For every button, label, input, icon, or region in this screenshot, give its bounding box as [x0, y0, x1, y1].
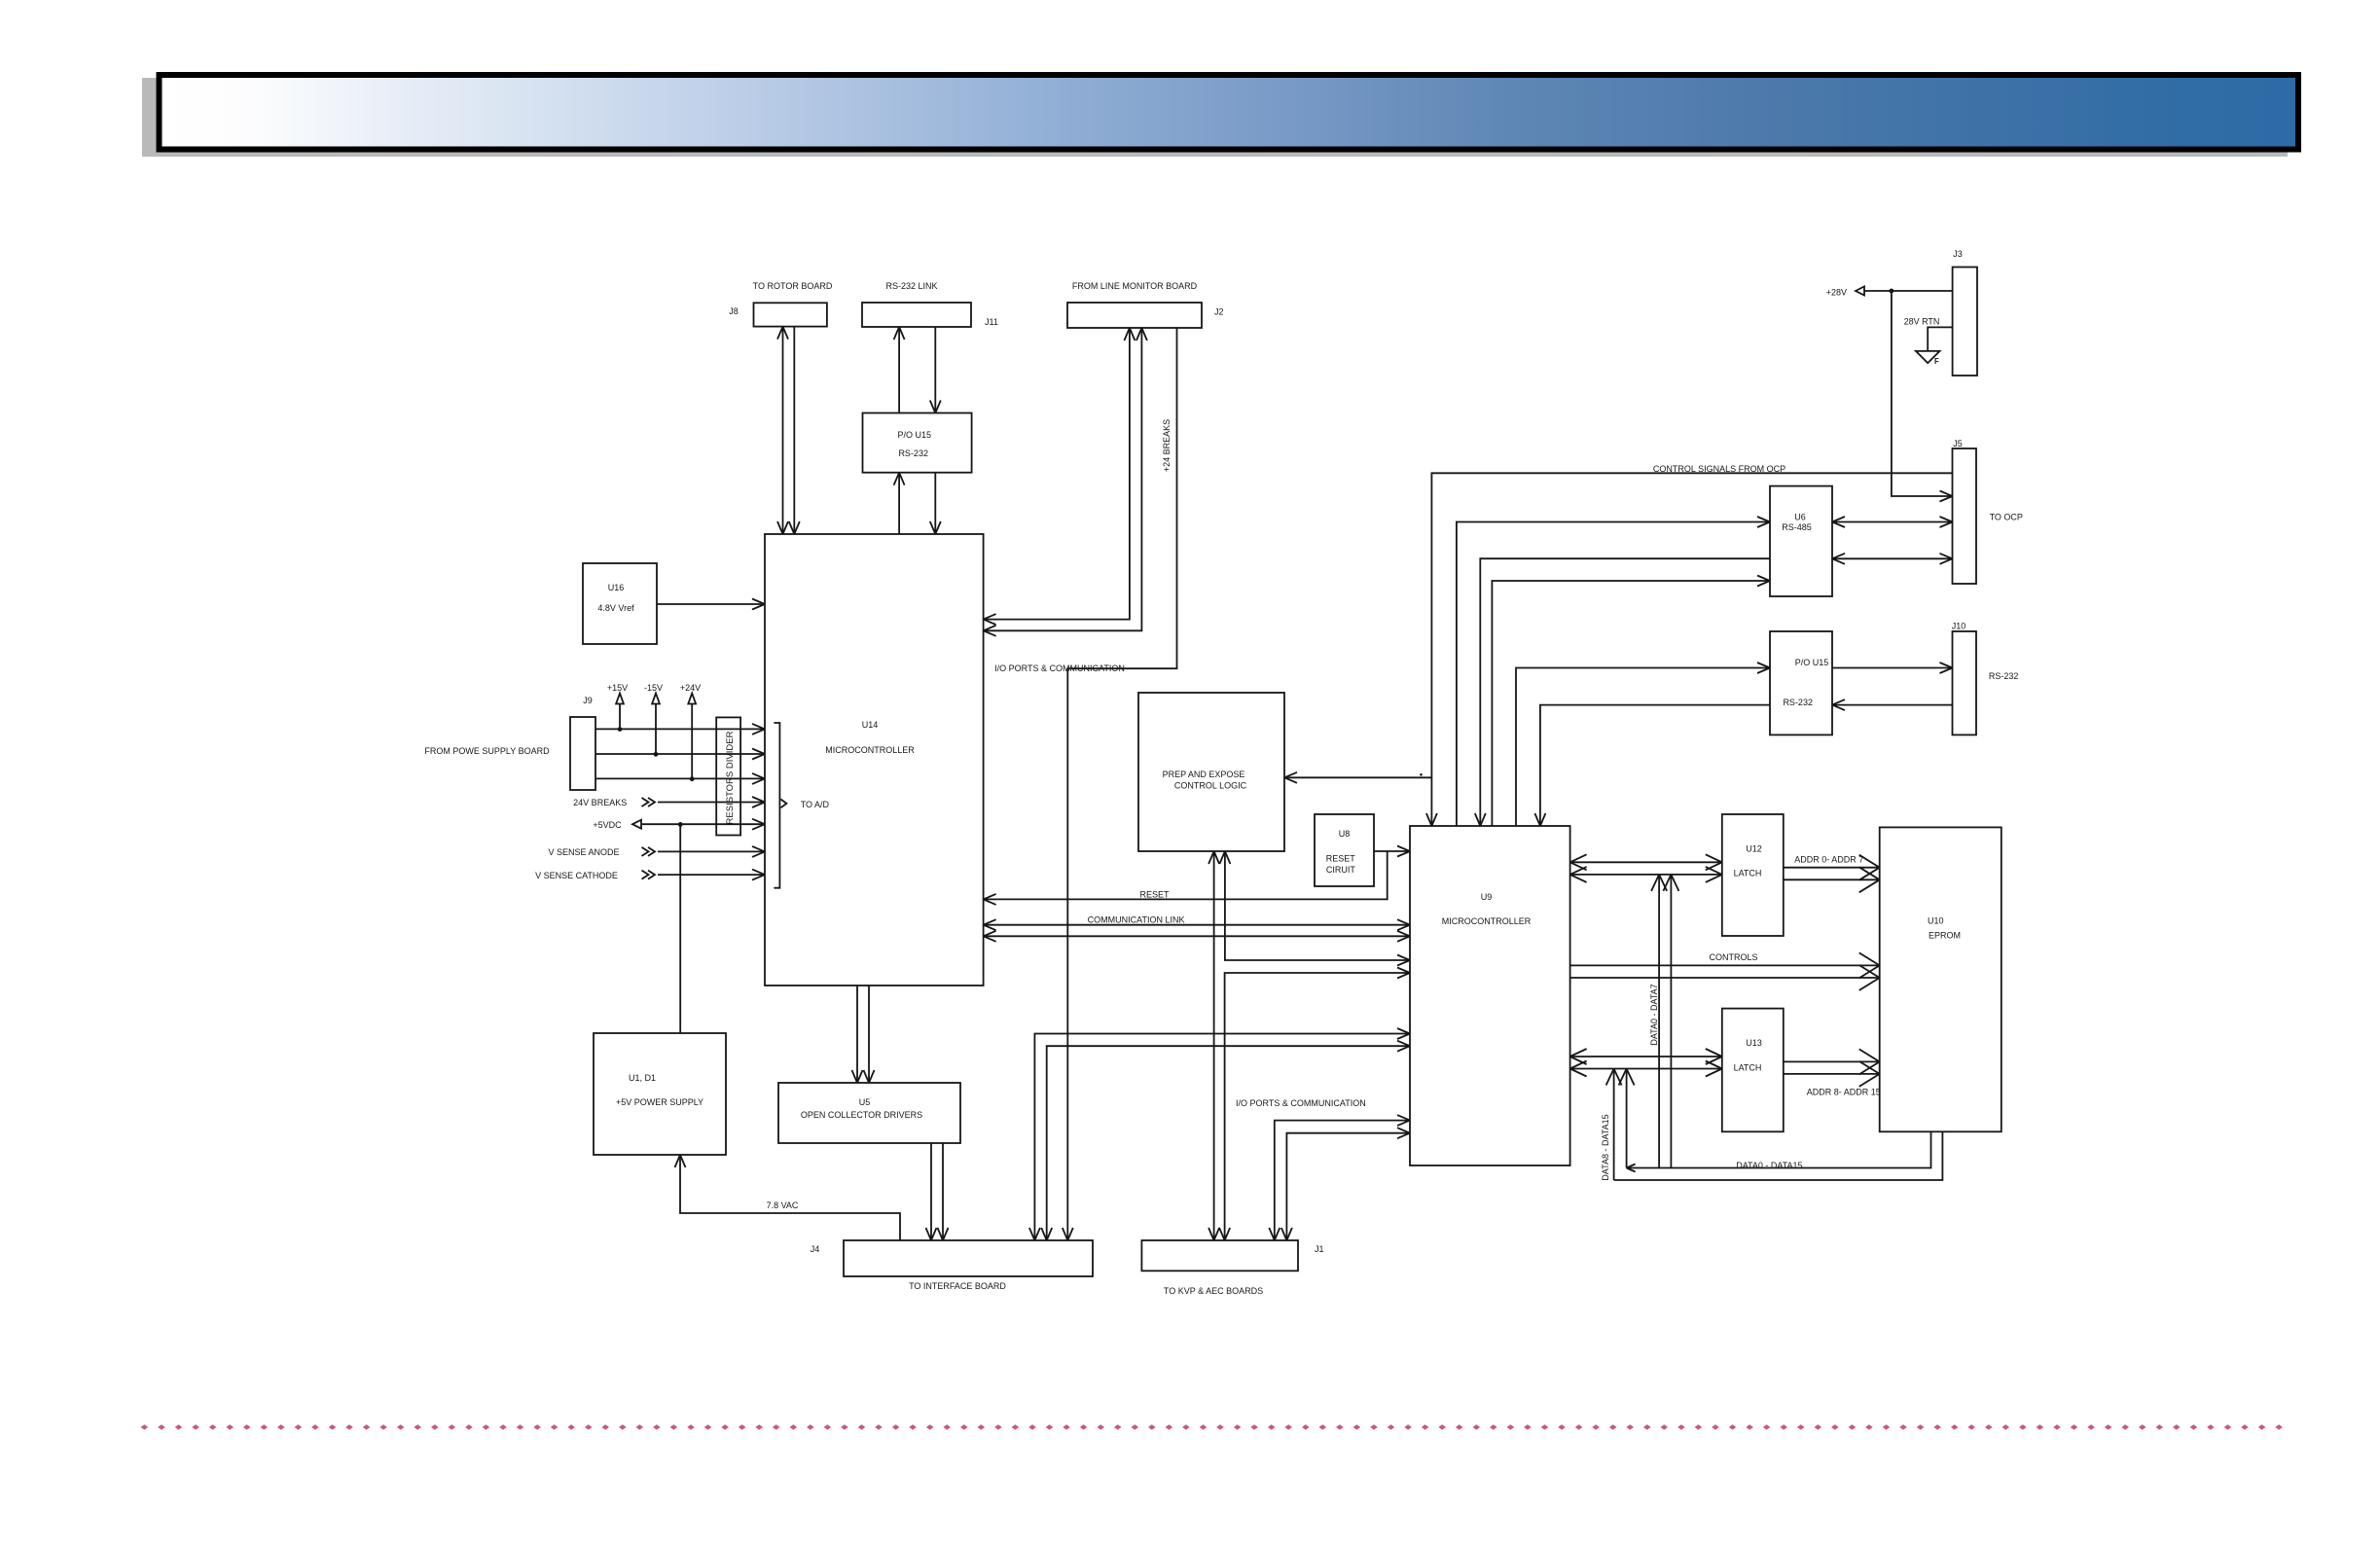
svg-text:LATCH: LATCH: [1734, 1062, 1762, 1072]
wire U5 to J4 right line: [942, 1143, 944, 1240]
ic U5 open collector drivers: [778, 1083, 960, 1143]
node +5VDC junction: [678, 822, 683, 827]
wire U9 to U6 line 1: [1457, 522, 1770, 827]
svg-text:CONTROL LOGIC: CONTROL LOGIC: [1174, 781, 1247, 791]
svg-text:-15V: -15V: [644, 683, 663, 693]
svg-text:+28V: +28V: [1826, 288, 1847, 298]
wire J10 to U15r: [1832, 704, 1953, 706]
wire J9 -15V rail: [595, 753, 765, 755]
wire U12-U10 ADDR bus line 2: [1784, 878, 1880, 880]
svg-text:RESET: RESET: [1326, 854, 1356, 864]
wire U9-U13 bus line 1: [1570, 1056, 1722, 1057]
svg-text:CONTROL SIGNALS FROM OCP: CONTROL SIGNALS FROM OCP: [1653, 464, 1785, 474]
wire DATA0-DATA15 upper: [1627, 1131, 1931, 1167]
node -15V: [655, 704, 657, 755]
header banner shadow: [142, 78, 2288, 157]
wire U16 to U14: [657, 603, 765, 605]
wire DATA0-DATA7 vertical right: [1670, 875, 1672, 1168]
ic U13 latch: [1722, 1009, 1784, 1132]
wire U8 to U9: [1374, 850, 1410, 852]
connector J9: [570, 717, 595, 790]
wire U9-U13 bus line 2: [1570, 1068, 1722, 1070]
svg-text:TO ROTOR BOARD: TO ROTOR BOARD: [753, 281, 833, 291]
wire J2 to U14 i/o line A: [984, 328, 1130, 620]
ic U9 microcontroller: [1410, 826, 1570, 1165]
connector J2: [1067, 303, 1202, 328]
svg-text:U14: U14: [862, 720, 879, 730]
wire J9 +24V rail: [595, 777, 765, 779]
wire J8 to U14 bus right line: [793, 327, 795, 534]
svg-text:U10: U10: [1928, 915, 1944, 925]
wire COMMUNICATION LINK line 1: [984, 924, 1410, 926]
wire U15 to U14 left line: [898, 473, 900, 534]
svg-text:TO OCP: TO OCP: [1990, 513, 2023, 522]
wire +5VDC input: [642, 823, 765, 825]
svg-text:RS-232: RS-232: [1783, 698, 1813, 707]
svg-text:+24 BREAKS: +24 BREAKS: [1162, 419, 1172, 472]
svg-text:RS-232 LINK: RS-232 LINK: [885, 281, 937, 291]
svg-text:FROM LINE MONITOR BOARD: FROM LINE MONITOR BOARD: [1072, 281, 1198, 291]
wire U9 to U6 line 2: [1492, 581, 1770, 826]
svg-text:J11: J11: [985, 317, 998, 327]
node +15V: [619, 704, 621, 730]
wire +5VDC down to U1: [679, 824, 681, 1033]
svg-text:J2: J2: [1214, 307, 1224, 317]
wire J8 to U14 bus left line: [782, 327, 784, 534]
svg-text:CIRUIT: CIRUIT: [1326, 865, 1355, 875]
wire COMMUNICATION LINK line 2: [984, 935, 1410, 937]
svg-text:J3: J3: [1953, 249, 1963, 259]
svg-text:J1: J1: [1315, 1244, 1324, 1254]
wire U5 to J4 left line: [930, 1143, 932, 1240]
wire J1 to U9 i/o upper: [1275, 1121, 1410, 1240]
svg-text:4.8V Vref: 4.8V Vref: [597, 603, 634, 613]
svg-text:PREP AND EXPOSE: PREP AND EXPOSE: [1163, 770, 1245, 779]
svg-text:ADDR 0- ADDR 7: ADDR 0- ADDR 7: [1794, 854, 1863, 864]
svg-text:DATA0 - DATA7: DATA0 - DATA7: [1649, 984, 1659, 1045]
wire U6 to J5 line 2: [1832, 557, 1953, 559]
svg-text:U9: U9: [1481, 892, 1493, 902]
ic U6 RS-485: [1770, 486, 1832, 596]
wire 28V RTN: [1928, 327, 1952, 351]
ic U15 P/O RS-232 (right): [1770, 631, 1832, 735]
svg-text:DATA8 - DATA15: DATA8 - DATA15: [1601, 1114, 1610, 1180]
wire J11 to U15 right line: [934, 327, 936, 413]
wire U14 to U5 right line: [868, 986, 870, 1083]
svg-text:+5VDC: +5VDC: [593, 820, 622, 830]
svg-text:I/O PORTS & COMMUNICATION: I/O PORTS & COMMUNICATION: [1236, 1098, 1366, 1108]
svg-text:J5: J5: [1953, 439, 1963, 448]
svg-text:J9: J9: [583, 696, 593, 705]
svg-text:U8: U8: [1339, 829, 1351, 839]
wire U6 to U9: [1480, 558, 1770, 826]
connector J5: [1953, 448, 1977, 584]
svg-text:U12: U12: [1746, 844, 1762, 854]
connector J8: [754, 303, 827, 326]
svg-text:U16: U16: [608, 583, 625, 592]
wire U9 to J1: [1225, 973, 1410, 1240]
svg-text:MICROCONTROLLER: MICROCONTROLLER: [825, 745, 915, 755]
svg-text:DATA0 - DATA15: DATA0 - DATA15: [1736, 1161, 1802, 1170]
wire J1 to U9 i/o lower: [1286, 1133, 1410, 1240]
wire J4 to U9 upper: [1034, 1034, 1410, 1241]
svg-text:TO INTERFACE BOARD: TO INTERFACE BOARD: [909, 1281, 1006, 1291]
wire CONTROL SIGNALS FROM OCP: [1431, 473, 1952, 826]
svg-text:TO A/D: TO A/D: [801, 800, 830, 809]
svg-text:V SENSE CATHODE: V SENSE CATHODE: [535, 871, 618, 880]
ic U15 P/O RS-232 (top): [863, 413, 972, 473]
svg-text:28V RTN: 28V RTN: [1904, 317, 1940, 327]
svg-text:MICROCONTROLLER: MICROCONTROLLER: [1442, 916, 1532, 926]
wire 7.8 VAC: [680, 1155, 900, 1240]
wire U14 to U5 left line: [856, 986, 858, 1083]
wire V SENSE CATHODE input: [658, 874, 765, 876]
wire U9-U12 bus line 1: [1570, 861, 1722, 863]
ic U12 latch: [1722, 814, 1784, 936]
svg-text:J10: J10: [1952, 622, 1966, 631]
svg-text:P/O U15: P/O U15: [898, 430, 932, 440]
svg-text:U6: U6: [1794, 513, 1806, 522]
svg-text:+5V POWER SUPPLY: +5V POWER SUPPLY: [616, 1097, 703, 1107]
wire U13-U10 ADDR bus line 1: [1784, 1060, 1880, 1062]
node stray dot: [1420, 773, 1423, 776]
svg-text:U13: U13: [1746, 1038, 1762, 1048]
wire U15 to U14 right line: [934, 473, 936, 534]
svg-text:F: F: [1934, 357, 1939, 366]
svg-text:RESET: RESET: [1139, 889, 1170, 899]
svg-text:24V BREAKS: 24V BREAKS: [573, 798, 627, 807]
wire U6 to J5 line 1: [1832, 521, 1953, 523]
svg-text:ADDR 8- ADDR 15: ADDR 8- ADDR 15: [1807, 1088, 1881, 1097]
ic U10 EPROM: [1880, 827, 2001, 1131]
wire U9 to U15r: [1516, 668, 1770, 827]
wire U15r to U9: [1540, 705, 1770, 826]
svg-text:LATCH: LATCH: [1734, 869, 1762, 878]
svg-text:OPEN COLLECTOR DRIVERS: OPEN COLLECTOR DRIVERS: [801, 1110, 922, 1120]
ic U8 reset circuit: [1315, 814, 1374, 886]
svg-text:CONTROLS: CONTROLS: [1709, 952, 1757, 962]
connector J3: [1953, 268, 1977, 376]
svg-text:V SENSE ANODE: V SENSE ANODE: [548, 847, 619, 857]
ic U1 D1 +5V power supply: [594, 1033, 726, 1155]
wire J9 +15V rail: [595, 728, 765, 730]
node +28V: [1856, 287, 1864, 296]
wire +28V to J5: [1892, 291, 1953, 496]
ic U14 microcontroller: [765, 534, 984, 986]
svg-text:U1, D1: U1, D1: [629, 1073, 656, 1083]
wire PREP to U9: [1225, 851, 1410, 960]
connector J1: [1141, 1240, 1298, 1271]
svg-text:+24V: +24V: [680, 683, 701, 693]
svg-text:RS-485: RS-485: [1782, 522, 1812, 532]
wire DATA8-DATA15 vertical left: [1613, 1069, 1615, 1181]
wire branch to PREP: [1284, 776, 1431, 778]
svg-text:RS-232: RS-232: [898, 448, 928, 458]
svg-text:EPROM: EPROM: [1929, 931, 1961, 941]
wire U13-U10 ADDR bus line 2: [1784, 1073, 1880, 1075]
wire U12-U10 ADDR bus line 1: [1784, 867, 1880, 869]
header banner bar: [157, 72, 2302, 153]
wire 24V BREAKS input: [658, 802, 765, 804]
bracket TO A/D: [774, 723, 779, 888]
node +24V: [691, 704, 693, 779]
svg-text:P/O U15: P/O U15: [1795, 658, 1829, 667]
svg-text:COMMUNICATION LINK: COMMUNICATION LINK: [1088, 915, 1185, 925]
separator dotted line: [141, 1424, 2283, 1429]
connector J4: [844, 1240, 1093, 1276]
wire +28V to J3: [1864, 290, 1953, 292]
ic U16 4.8V Vref: [583, 563, 657, 644]
wire DATA0-DATA7 vertical left: [1658, 875, 1660, 1168]
wire CONTROLS line 1: [1570, 964, 1880, 966]
wire CONTROLS line 2: [1570, 977, 1880, 979]
wire U15r to J10: [1832, 667, 1953, 669]
connector J11: [862, 303, 971, 327]
wire J4 to U9 lower: [1047, 1046, 1410, 1240]
svg-text:J8: J8: [729, 306, 739, 316]
prep and expose control logic block: [1138, 693, 1284, 851]
svg-text:TO KVP & AEC BOARDS: TO KVP & AEC BOARDS: [1164, 1286, 1263, 1296]
wire RESET U14 to U8 junction: [984, 851, 1388, 899]
wire J11 to U15 left line: [898, 327, 900, 413]
svg-text:RS-232: RS-232: [1989, 671, 2019, 681]
connector J10: [1953, 631, 1977, 735]
svg-text:FROM POWE SUPPLY BOARD: FROM POWE SUPPLY BOARD: [424, 746, 550, 756]
svg-text:+15V: +15V: [607, 683, 628, 693]
wire PREP to J1: [1213, 851, 1215, 1240]
svg-text:7.8 VAC: 7.8 VAC: [767, 1201, 799, 1210]
wire V SENSE ANODE input: [658, 850, 765, 852]
resistors divider: [716, 717, 740, 835]
wire DATA0-DATA15 lower: [1614, 1131, 1943, 1180]
wire DATA8-DATA15 vertical right: [1626, 1069, 1628, 1168]
wire U9-U12 bus line 2: [1570, 874, 1722, 876]
svg-text:RESISTORS DIVIDER: RESISTORS DIVIDER: [725, 731, 736, 824]
wire +24 breaks J2 to J4: [1067, 328, 1176, 1240]
svg-text:J4: J4: [811, 1244, 820, 1254]
wire J2 to U14 i/o line B: [984, 328, 1142, 630]
svg-text:U5: U5: [859, 1097, 871, 1107]
ground F: [1916, 351, 1940, 363]
